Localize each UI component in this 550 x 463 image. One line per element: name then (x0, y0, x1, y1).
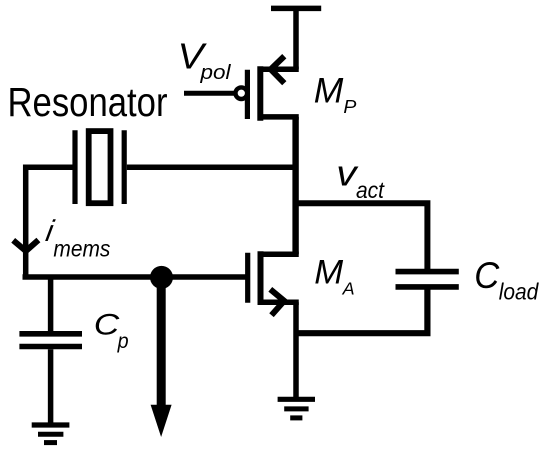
label M_P (314, 71, 357, 117)
transistor M_P (236, 56, 299, 121)
wire resonator left leg down to node (26, 167, 75, 277)
svg-text:p: p (117, 330, 129, 353)
ground for M_A (278, 399, 315, 418)
svg-text:load: load (499, 279, 540, 305)
label V_pol (178, 35, 232, 84)
wire M_A source to ground (293, 302, 299, 398)
svg-text:M: M (314, 71, 344, 111)
motional-current probe arrow (151, 277, 172, 437)
svg-text:Resonator: Resonator (8, 79, 168, 125)
power rail VDD (271, 6, 321, 12)
label C_p (94, 308, 129, 353)
label M_A (314, 254, 354, 299)
svg-text:C: C (94, 308, 120, 341)
label i_mems (43, 215, 110, 261)
label v_act (336, 153, 385, 203)
wire node to M_A gate (23, 274, 248, 280)
svg-text:M: M (314, 254, 343, 292)
resonator X1 (75, 130, 124, 204)
junction dot (150, 266, 173, 289)
wire v_act node to C_load top (296, 203, 427, 269)
svg-text:mems: mems (53, 235, 110, 261)
transistor M_A (248, 251, 299, 315)
capacitor C_load (296, 272, 459, 334)
svg-text:A: A (342, 279, 355, 299)
svg-text:pol: pol (199, 62, 231, 84)
label C_load (474, 255, 539, 304)
svg-text:act: act (356, 177, 385, 203)
wire V_pol to M_P gate (184, 91, 235, 96)
current arrow i_mems (13, 240, 38, 251)
ground for C_p (32, 425, 70, 443)
capacitor C_p (19, 277, 82, 424)
svg-text:C: C (474, 255, 499, 296)
wire M_P drain to M_A drain (292, 117, 298, 254)
wire resonator to trunk (127, 164, 296, 170)
wire VDD to M_P source (293, 8, 299, 69)
svg-text:P: P (343, 97, 356, 117)
